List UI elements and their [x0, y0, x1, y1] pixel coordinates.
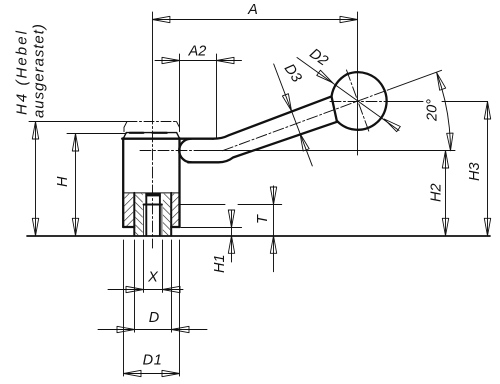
H1 extension (hub bottom extended) — [181, 227, 242, 229]
serration mark right — [153, 132, 167, 134]
svg-text:H: H — [55, 176, 71, 187]
svg-text:ausgerastet): ausgerastet) — [31, 23, 48, 118]
phantom side right — [179, 127, 181, 131]
ball horizontal centerline — [330, 101, 388, 103]
dimension A line — [152, 19, 357, 21]
cap chamfer right — [177, 133, 180, 139]
svg-text:A: A — [247, 2, 258, 18]
ball cone base chamfer — [332, 74, 348, 122]
dimension A2 arrows — [162, 57, 180, 63]
hub bottom right segment — [171, 226, 179, 228]
dimension H1 line — [231, 210, 233, 262]
ball vertical centerline / A extension — [357, 12, 359, 155]
svg-text:T: T — [255, 214, 271, 224]
hub top thick line (serration ring top / boss top) — [122, 138, 213, 140]
hub left edge — [122, 138, 124, 227]
hatch hub ring left — [124, 194, 133, 227]
A2 extension right — [216, 54, 218, 138]
dimension H4 line — [35, 122, 37, 236]
D extension left — [134, 240, 136, 332]
lever top edge — [213, 96, 332, 138]
dimension A2 line — [155, 60, 242, 62]
phantom chamfer right — [177, 122, 180, 128]
D extension right — [171, 240, 173, 332]
lever axis centerline 20deg — [223, 89, 391, 151]
dimension H3 line — [487, 102, 489, 236]
dimension D3 line — [274, 64, 313, 166]
svg-text:D3: D3 — [281, 61, 305, 85]
cap top line — [126, 132, 176, 134]
dimension A extension left — [152, 12, 154, 113]
thread major right — [161, 204, 163, 236]
ball horizontal extension to H3 (left of text) — [388, 101, 423, 103]
dimension D2 line — [297, 58, 399, 131]
svg-text:A2: A2 — [188, 44, 207, 60]
dimension H2 line — [445, 151, 447, 236]
X extension left — [143, 240, 145, 292]
svg-text:X: X — [147, 270, 159, 286]
svg-text:H1: H1 — [212, 254, 228, 273]
ball outline — [337, 72, 387, 130]
phantom chamfer left — [124, 122, 127, 128]
angle dimension arc 20deg — [437, 73, 451, 151]
angle leg line 20deg beyond ball — [390, 70, 442, 89]
serration mark left — [130, 132, 144, 134]
ball perpendicular centerline — [347, 70, 370, 132]
svg-text:D: D — [149, 310, 159, 326]
bushing wall left — [133, 193, 135, 236]
hatch section top line — [123, 192, 179, 194]
thread major left — [143, 204, 145, 236]
cap chamfer left — [123, 133, 126, 139]
hub vertical centerline — [152, 113, 154, 248]
A2 extension left — [179, 54, 181, 128]
hub horizontal centerline — [140, 150, 203, 152]
svg-text:D1: D1 — [143, 353, 163, 369]
dimension A arrows — [152, 16, 170, 22]
bore wall right — [159, 196, 161, 236]
D1 extension left — [123, 240, 125, 376]
svg-text:H4 (Hebel: H4 (Hebel — [14, 29, 31, 115]
lever boss end arc — [179, 139, 191, 163]
dimension H line — [75, 134, 77, 236]
ball horizontal extension to H3 (right of text) — [442, 101, 488, 103]
X extension right — [162, 240, 164, 292]
hatch bushing left — [135, 194, 142, 236]
counterbore step line — [144, 204, 162, 206]
svg-text:H2: H2 — [429, 183, 445, 202]
dimension D1 line — [124, 373, 180, 375]
phantom side left — [123, 127, 125, 131]
lever bottom edge — [188, 122, 337, 163]
H4 extension line — [29, 121, 127, 123]
svg-text:20°: 20° — [425, 99, 441, 122]
dimension X line — [108, 289, 183, 291]
dimension D line — [98, 329, 207, 331]
svg-text:H3: H3 — [467, 162, 483, 181]
H extension line — [67, 133, 126, 135]
hatch hub ring right — [172, 194, 179, 227]
blind hole bottom bar — [145, 193, 161, 197]
bore wall left — [145, 196, 147, 236]
hatch bushing right — [163, 194, 170, 236]
bushing wall right — [170, 193, 172, 236]
svg-text:D2: D2 — [306, 46, 330, 70]
D1 extension right — [179, 240, 181, 376]
baseline (mounting surface) — [27, 235, 490, 237]
hub right edge — [178, 138, 180, 227]
T extension (thread top extended) — [181, 204, 226, 206]
hub bottom left segment — [123, 226, 134, 228]
dimension T line — [273, 186, 275, 272]
phantom raised cap top (lever disengaged) — [127, 121, 177, 123]
horizontal extension line to H2 — [203, 150, 455, 152]
